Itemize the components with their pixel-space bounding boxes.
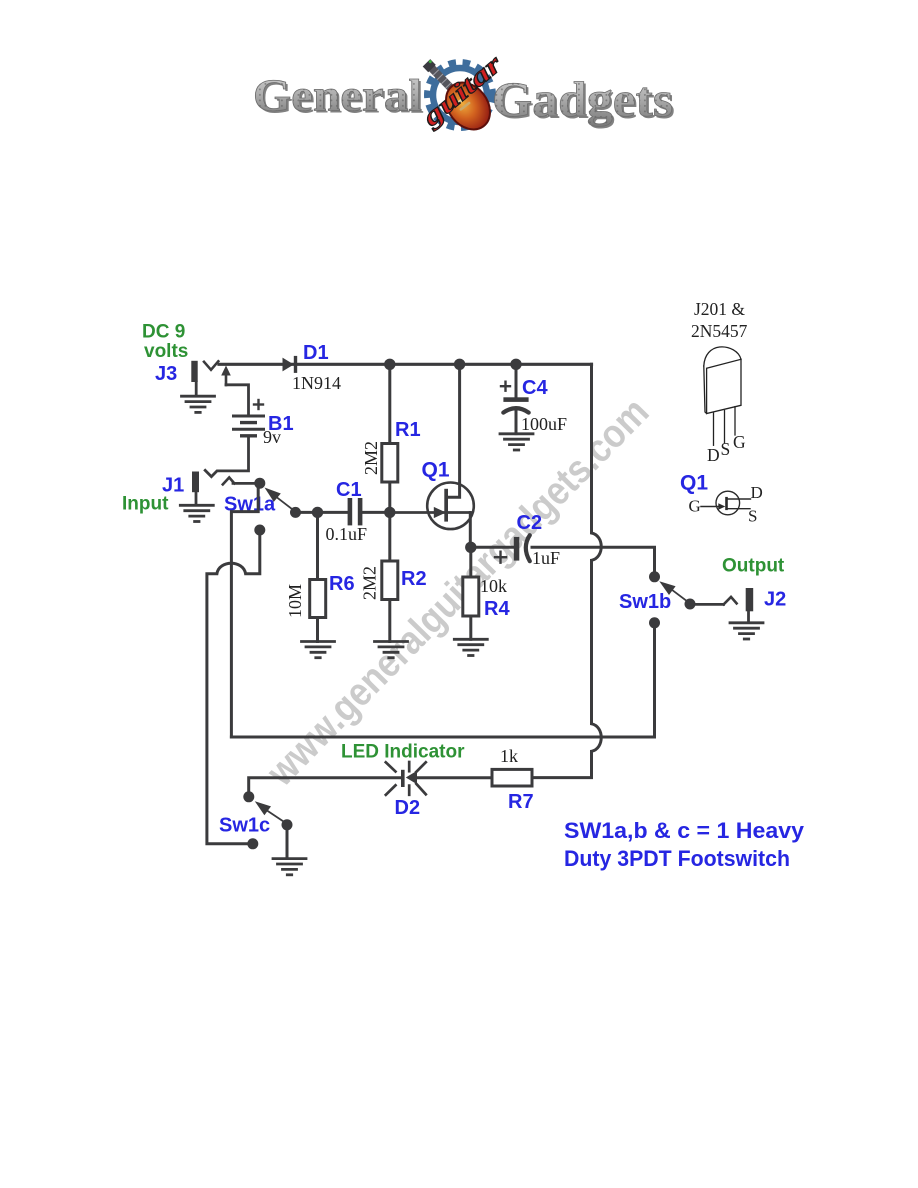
svg-text:R4: R4 (484, 598, 510, 620)
logo script "guitar" (416, 48, 509, 132)
transistor Q1 pinout symbol (701, 491, 751, 515)
LED D2 (386, 762, 426, 795)
label Sw1a (224, 494, 276, 516)
value 1uF (532, 548, 560, 568)
svg-text:1uF: 1uF (532, 548, 560, 568)
wire LED anode to R7 (417, 776, 492, 779)
svg-text:DC 9: DC 9 (142, 322, 185, 343)
svg-text:S: S (721, 439, 731, 459)
node source junction (465, 542, 476, 553)
svg-text:volts: volts (144, 341, 188, 362)
label Sw1c (219, 815, 270, 837)
wire Sw1b common to J2 (695, 597, 737, 605)
label R7 (508, 791, 534, 813)
svg-text:D2: D2 (395, 797, 421, 819)
label Output (722, 556, 785, 577)
label D1 (303, 342, 329, 364)
ground (Sw1c) (273, 859, 306, 875)
label R2 (401, 568, 427, 590)
value 2M2 (R1) (361, 441, 381, 475)
node drain rail junction (454, 359, 465, 370)
wire +9V top rail (219, 363, 592, 366)
wire Sw1a lower throw to Sw1c lower throw (207, 535, 260, 844)
ground (R2) (375, 642, 408, 658)
ground (J2) (730, 623, 763, 639)
note SW1a,b & c (564, 818, 804, 871)
label J2 (764, 589, 786, 611)
label LED Indicator (341, 742, 465, 763)
pin labels G D S (pinout) (689, 483, 763, 526)
label R4 (484, 598, 510, 620)
label Input (122, 494, 169, 515)
jack J3 (191, 361, 218, 396)
svg-text:Sw1b: Sw1b (619, 591, 671, 613)
svg-text:Input: Input (122, 494, 169, 515)
logo guitar body (437, 74, 499, 138)
svg-text:G: G (733, 432, 746, 452)
logo gear (429, 64, 492, 127)
value 2M2 (R2) (360, 566, 380, 600)
jack J1 (192, 472, 234, 506)
svg-text:1k: 1k (500, 746, 518, 766)
label D2 (395, 797, 421, 819)
watermark www.generalguitargadgets.com (258, 390, 657, 795)
resistor R4 (463, 552, 479, 639)
svg-text:2N5457: 2N5457 (691, 321, 748, 341)
node R1 top rail junction (384, 359, 395, 370)
label DC 9 volts (142, 322, 188, 363)
value 1k (500, 746, 518, 766)
logo guitar neck (423, 59, 463, 100)
value 100uF (521, 414, 567, 434)
switch Sw1a (254, 478, 301, 536)
svg-text:R6: R6 (329, 573, 355, 595)
wire Sw1a common to C1 (300, 511, 347, 514)
capacitor C2 (476, 535, 530, 563)
value 1N914 (292, 373, 341, 393)
label B1 (268, 413, 294, 435)
svg-text:2M2: 2M2 (360, 566, 380, 600)
transistor TO-92 package drawing (704, 347, 741, 445)
label C1 (336, 479, 362, 501)
label C2 (517, 512, 543, 534)
node C4 rail junction (510, 359, 521, 370)
svg-text:J201 &: J201 & (694, 299, 745, 319)
ground (R4) (454, 639, 487, 655)
label C4 (522, 377, 548, 399)
svg-text:D: D (751, 483, 763, 502)
label Q1 (422, 459, 450, 482)
svg-text:10M: 10M (285, 584, 305, 618)
svg-text:SW1a,b & c = 1 Heavy: SW1a,b & c = 1 Heavy (564, 818, 804, 843)
svg-text:J3: J3 (155, 363, 177, 385)
label R1 (395, 419, 421, 441)
svg-text:R1: R1 (395, 419, 421, 441)
svg-text:C1: C1 (336, 479, 362, 501)
capacitor C1 (348, 498, 363, 525)
svg-text:10k: 10k (480, 576, 507, 596)
svg-text:Duty 3PDT Footswitch: Duty 3PDT Footswitch (564, 846, 790, 871)
pin labels D S G (TO-92) (707, 432, 746, 465)
svg-text:S: S (748, 507, 757, 526)
battery B1 (234, 400, 264, 436)
label Sw1b (619, 591, 671, 613)
label J3 (155, 363, 177, 385)
svg-text:D1: D1 (303, 342, 329, 364)
svg-text:D: D (707, 445, 720, 465)
wire LED cathode line to Sw1c upper throw (249, 778, 401, 792)
wire bypass bus to Sw1b lower throw (231, 628, 654, 737)
svg-text:9v: 9v (263, 427, 281, 447)
svg-text:General: General (253, 71, 422, 121)
value 9v (263, 427, 281, 447)
label R6 (329, 573, 355, 595)
svg-text:R7: R7 (508, 791, 534, 813)
value 0.1uF (326, 524, 368, 544)
svg-text:Q1: Q1 (422, 459, 450, 482)
resistor R2 (382, 512, 398, 641)
resistor R7 (492, 769, 532, 786)
ground (J1) (180, 505, 213, 521)
ground (R6) (302, 642, 335, 658)
wire Sw1a input throw to bypass bus (231, 488, 258, 737)
svg-text:C2: C2 (517, 512, 543, 534)
label Q1 (pinout) (680, 472, 708, 495)
wire C2 to Sw1b upper throw (532, 547, 655, 571)
svg-text:C4: C4 (522, 377, 548, 399)
wire battery to J1 ring contact (205, 437, 248, 477)
svg-text:J2: J2 (764, 589, 786, 611)
resistor R6 (310, 517, 326, 642)
capacitor C4 (501, 366, 529, 434)
logo text "General" (253, 71, 424, 123)
node gate junction (384, 507, 395, 518)
ground (J3) (182, 396, 215, 412)
svg-text:G: G (689, 497, 701, 516)
value 10k (480, 576, 507, 596)
node R6 tap junction (312, 507, 323, 518)
switch Sw1c (243, 791, 292, 849)
diode D1 (283, 356, 298, 373)
svg-text:LED Indicator: LED Indicator (341, 742, 465, 763)
svg-text:Sw1c: Sw1c (219, 815, 270, 837)
wire J1 tip to Sw1a input (233, 482, 255, 485)
transistor Q1 (JFET) (390, 364, 474, 547)
value 10M (285, 584, 305, 618)
ground (C4) (500, 434, 533, 450)
wire C1 to gate node (362, 511, 390, 514)
battery switch contact on J3 (arrow) (221, 366, 248, 416)
switch Sw1b (649, 571, 696, 628)
svg-text:Q1: Q1 (680, 472, 708, 495)
svg-text:1N914: 1N914 (292, 373, 341, 393)
logo text "Gadgets" (492, 71, 675, 129)
svg-text:0.1uF: 0.1uF (326, 524, 368, 544)
wire Sw1c common to ground (286, 830, 289, 858)
jack J2 (746, 588, 754, 623)
resistor R1 (382, 364, 398, 512)
svg-text:100uF: 100uF (521, 414, 567, 434)
svg-text:Gadgets: Gadgets (492, 71, 673, 127)
wire +9V feed to LED resistor (with hops) (532, 364, 601, 777)
svg-text:Output: Output (722, 556, 785, 577)
value J201 & 2N5457 (691, 299, 748, 341)
svg-text:R2: R2 (401, 568, 427, 590)
label J1 (162, 475, 184, 497)
svg-text:2M2: 2M2 (361, 441, 381, 475)
